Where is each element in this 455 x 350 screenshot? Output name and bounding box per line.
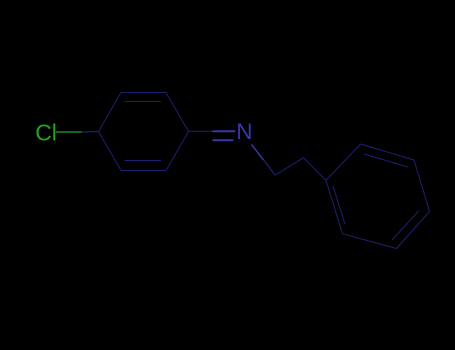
bond Cl to ring : green half: [56, 131, 82, 133]
wire aromatic inner bottom: [125, 160, 161, 162]
wire bond CH2-CH2: [275, 158, 303, 176]
benzene ring left (4-chlorophenyl): [99, 93, 189, 171]
wire aromatic inner B-C: [364, 154, 408, 167]
wire aromatic inner D-E: [392, 211, 419, 241]
bond ring to imine CH: [189, 130, 213, 132]
wire ring edge E-F: [343, 234, 397, 249]
wire ring edge C-D: [414, 160, 430, 212]
wire bond CH2 to ring A: [303, 158, 326, 181]
wire aromatic inner top: [125, 101, 161, 103]
svg-text:Cl: Cl: [35, 120, 57, 146]
wire aromatic inner F-A: [333, 186, 345, 224]
wire ring edge A-B: [326, 144, 361, 181]
wire ring edge R-BR: [166, 132, 189, 171]
bond N to CH2 : carbon half: [264, 160, 276, 175]
bond N to CH2 : nitrogen half: [252, 145, 264, 160]
wire ring edge L-TL: [99, 93, 122, 132]
svg-text:N: N: [236, 119, 252, 144]
wire ring edge B-C: [361, 144, 415, 160]
bond Cl to ring : carbon half: [82, 131, 99, 133]
wire ring edge BR-BL: [121, 170, 166, 172]
wire ring edge F-A: [326, 181, 343, 234]
wire ring edge BL-L: [99, 132, 122, 171]
wire ring edge TR-R: [166, 93, 189, 132]
wire ring edge D-E: [396, 212, 429, 249]
chain bonds and right phenyl ring: [275, 144, 429, 249]
wire ring edge TL-TR: [121, 92, 166, 94]
double bond CH=N lower: [213, 139, 234, 141]
double bond CH=N upper: [213, 130, 236, 132]
